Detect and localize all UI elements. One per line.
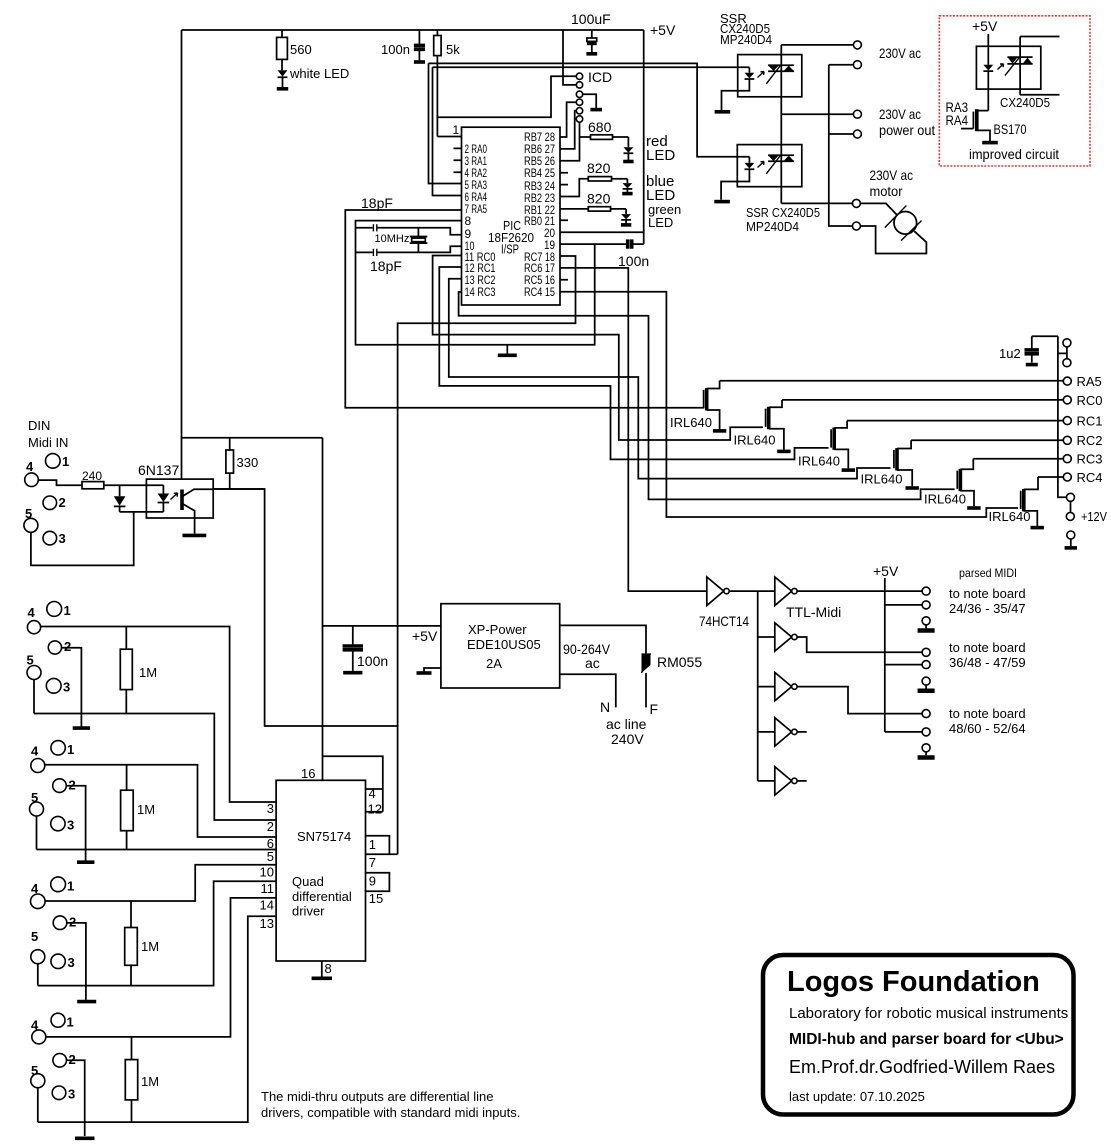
wire Q3 drain to RC1 terminal	[847, 420, 1063, 422]
svg-text:XP-Power: XP-Power	[468, 622, 527, 637]
svg-text:11: 11	[261, 881, 275, 896]
svg-text:+5V: +5V	[412, 628, 438, 644]
svg-text:3: 3	[67, 818, 74, 833]
label left pins	[260, 801, 274, 931]
wire SSR1 MT1 to terminal3	[781, 113, 853, 115]
label 90-264V ac	[563, 641, 611, 671]
svg-text:3: 3	[59, 531, 66, 546]
svg-text:48/60 - 52/64: 48/60 - 52/64	[949, 721, 1026, 736]
transistor Q3 IRL640	[798, 421, 855, 471]
LED opto SSR1	[715, 67, 764, 112]
resistor 1M (DIN3)	[121, 765, 155, 850]
svg-text:18pF: 18pF	[361, 195, 393, 211]
svg-text:14: 14	[260, 898, 274, 913]
wire RC7 pin18 to 6N137 output	[213, 256, 575, 854]
svg-text:RC3: RC3	[1077, 452, 1103, 467]
wire out F stub	[797, 780, 807, 782]
resistor 820 (green)	[560, 191, 626, 212]
red box improved circuit	[939, 16, 1090, 166]
svg-text:Laboratory for robotic musical: Laboratory for robotic musical instrumen…	[789, 1005, 1068, 1022]
svg-text:4: 4	[31, 744, 39, 759]
svg-text:330: 330	[237, 455, 259, 470]
svg-text:3: 3	[68, 1087, 75, 1102]
svg-text:IRL640: IRL640	[734, 433, 776, 448]
wire ICD pin6 to RB5	[560, 122, 580, 161]
LED white LED	[277, 66, 349, 89]
svg-text:IRL640: IRL640	[924, 492, 966, 507]
wire RA3 line to SSR2	[429, 63, 750, 156]
connector ICD	[576, 69, 612, 122]
opto box CX240D5	[976, 46, 1040, 89]
wire triac improved stubs	[1020, 37, 1059, 95]
svg-text:I/SP: I/SP	[501, 242, 519, 257]
connector DIN4	[31, 877, 77, 970]
wire RA4 vertical to PIC pin6	[433, 67, 462, 195]
svg-text:MP240D4: MP240D4	[720, 32, 772, 47]
wire +12V pair link	[1070, 501, 1072, 512]
connector board2	[918, 648, 935, 691]
wire DIN5 pin2	[67, 1060, 85, 1122]
LED green	[621, 202, 681, 230]
resistor 240	[82, 469, 120, 489]
svg-text:1: 1	[62, 454, 69, 469]
triac SSR1	[766, 45, 794, 114]
svg-text:+5V: +5V	[873, 563, 899, 579]
wire DIN4 pin2	[67, 923, 86, 986]
svg-text:2: 2	[64, 639, 71, 654]
wire RA5 pin7 to IRL640 Q1 gate	[345, 210, 704, 408]
label ac line 240V	[606, 716, 647, 747]
wire PSU L to fuse	[560, 625, 646, 653]
wire RC0 pin11 to Q2 gate	[433, 256, 763, 441]
svg-text:to note board: to note board	[949, 586, 1026, 601]
fuse RM055	[642, 653, 703, 673]
connector board3	[918, 710, 935, 758]
wire RC6 pin17 to 74HCT14	[560, 268, 707, 591]
wire DIN1 pin4	[38, 480, 82, 485]
svg-text:Logos Foundation: Logos Foundation	[787, 966, 1040, 998]
LED opto improved	[983, 34, 1003, 111]
transistor Q1 IRL640	[670, 381, 726, 431]
svg-text:parsed MIDI: parsed MIDI	[959, 566, 1017, 580]
wire MCLR to ICD pin1	[437, 76, 576, 117]
wire pin20 Vdd to +5V	[560, 231, 644, 233]
label DIN Midi IN	[28, 418, 68, 450]
svg-text:1M: 1M	[141, 1074, 159, 1089]
transistor Q2 IRL640	[734, 400, 791, 452]
svg-text:24/36 - 35/47: 24/36 - 35/47	[949, 601, 1026, 616]
svg-text:to note board: to note board	[949, 640, 1026, 655]
inverter 74HCT14 A	[699, 577, 749, 629]
capacitor 100uF	[571, 11, 611, 54]
svg-text:1u2: 1u2	[999, 346, 1021, 361]
svg-text:100n: 100n	[357, 653, 388, 669]
svg-text:560: 560	[290, 42, 312, 57]
capacitor 18pF bottom	[356, 246, 462, 274]
svg-text:1M: 1M	[139, 665, 157, 680]
svg-text:+12V: +12V	[1081, 509, 1107, 524]
svg-text:2A: 2A	[486, 656, 502, 671]
svg-text:drivers, compatible with stand: drivers, compatible with standard midi i…	[261, 1105, 520, 1120]
svg-text:N: N	[600, 699, 610, 715]
wire pin8 Vss ground line	[356, 221, 595, 345]
inverter E	[758, 718, 797, 746]
svg-text:4: 4	[369, 786, 376, 801]
svg-text:12: 12	[368, 802, 382, 817]
svg-text:MP240D4: MP240D4	[746, 219, 799, 234]
svg-text:14 RC3: 14 RC3	[465, 285, 496, 299]
wire +5V net down	[323, 438, 383, 812]
svg-text:white LED: white LED	[289, 66, 349, 81]
svg-text:680: 680	[588, 119, 612, 135]
svg-text:F: F	[650, 701, 659, 717]
svg-text:100n: 100n	[618, 253, 649, 269]
triac improved	[1005, 37, 1033, 95]
svg-text:230V ac: 230V ac	[879, 45, 921, 61]
wire out E stub	[797, 731, 807, 733]
wire DIN4 bus to SN pin11	[38, 881, 276, 985]
svg-text:motor: motor	[870, 183, 903, 199]
svg-text:230V ac: 230V ac	[879, 106, 921, 122]
wire out B to board1	[797, 590, 922, 592]
SSR2 box	[737, 145, 802, 187]
capacitor 18pF top	[356, 195, 462, 235]
svg-text:74HCT14: 74HCT14	[699, 613, 749, 629]
LED red	[623, 133, 675, 164]
wire DIN5 bus to SN pin13	[38, 916, 276, 1122]
svg-text:240V: 240V	[611, 731, 644, 747]
svg-text:SN75174: SN75174	[297, 829, 351, 844]
ground under PIC	[498, 345, 517, 356]
ground terminal bottom	[1065, 531, 1077, 548]
transistor BS170	[961, 109, 1027, 142]
svg-text:1: 1	[67, 879, 74, 894]
capacitor 1u2	[999, 336, 1058, 364]
resistor 1M (DIN4)	[125, 901, 159, 986]
LED blue	[622, 173, 675, 204]
label pin4 pin12	[368, 786, 382, 817]
transistor Q4 IRL640	[861, 440, 919, 488]
svg-text:Em.Prof.dr.Godfried-Willem Rae: Em.Prof.dr.Godfried-Willem Raes	[789, 1057, 1055, 1077]
wire out D to board3	[797, 687, 922, 714]
ground SN pin8	[312, 961, 332, 978]
svg-text:Midi IN: Midi IN	[28, 435, 68, 450]
wire 1u2 terminal link	[1058, 347, 1067, 359]
svg-text:EDE10US05: EDE10US05	[467, 637, 541, 652]
svg-text:16: 16	[301, 766, 315, 781]
svg-text:1: 1	[453, 123, 460, 137]
wire TTL chain vertical	[757, 591, 759, 781]
resistor 560	[277, 30, 312, 70]
svg-text:Quad: Quad	[292, 874, 324, 889]
svg-text:820: 820	[587, 191, 611, 207]
connector DIN3	[30, 741, 76, 833]
svg-text:IRL640: IRL640	[861, 472, 903, 487]
svg-text:DIN: DIN	[28, 418, 50, 433]
svg-text:+5V: +5V	[650, 22, 676, 38]
wire terminal bus	[829, 65, 854, 226]
diode protection	[114, 485, 126, 512]
wire DIN2 pin4 to SN pin3	[41, 627, 277, 803]
wire XP +5V output	[323, 625, 441, 627]
capacitor 100n (MCLR)	[381, 30, 425, 62]
connector DIN2	[27, 602, 72, 695]
ground DIN5	[75, 1122, 95, 1138]
ground PSU	[417, 668, 441, 673]
svg-text:improved circuit: improved circuit	[969, 146, 1059, 162]
PSU XP-Power box	[441, 604, 560, 688]
capacitor 100n (Vdd-Vss)	[560, 239, 649, 269]
svg-text:to note board: to note board	[949, 706, 1026, 721]
wire out C to board2	[797, 637, 922, 652]
wire DIN2 bus to SN pin2	[34, 680, 276, 821]
svg-text:IRL640: IRL640	[798, 454, 840, 469]
svg-text:RB4 25: RB4 25	[524, 166, 555, 180]
resistor 820 (blue)	[560, 160, 627, 197]
svg-text:LED: LED	[646, 147, 675, 164]
triac SSR2	[766, 114, 794, 203]
wire fuse to F	[645, 673, 647, 708]
wire ICD pin2 to +5V	[563, 30, 576, 85]
svg-text:RA5: RA5	[1077, 374, 1102, 389]
svg-text:820: 820	[587, 160, 611, 176]
svg-text:5: 5	[267, 849, 274, 864]
ground DIN2	[73, 714, 90, 729]
svg-text:power out: power out	[879, 122, 935, 138]
inverter D	[758, 672, 797, 700]
svg-text:10MHz: 10MHz	[375, 233, 410, 245]
wire ICD pin5 to RB6	[560, 111, 576, 149]
title block Logos Foundation	[763, 955, 1074, 1115]
svg-text:IRL640: IRL640	[989, 509, 1031, 524]
svg-text:3: 3	[68, 955, 75, 970]
svg-text:5: 5	[31, 929, 38, 944]
wire RC2 pin13 to Q4 gate	[449, 279, 891, 479]
svg-text:ICD: ICD	[588, 69, 612, 85]
svg-text:The midi-thru outputs are diff: The midi-thru outputs are differential l…	[261, 1089, 493, 1104]
svg-text:MIDI-hub and parser board for: MIDI-hub and parser board for <Ubu>	[789, 1031, 1064, 1048]
wire Q2 drain to RC0 terminal	[782, 399, 1063, 401]
svg-text:RM055: RM055	[657, 654, 702, 670]
svg-text:ac line: ac line	[606, 716, 647, 732]
svg-text:1M: 1M	[141, 939, 159, 954]
label 230V ac motor	[870, 167, 914, 199]
svg-text:RC2: RC2	[1077, 433, 1103, 448]
connector right terminals	[1063, 339, 1075, 521]
svg-text:9: 9	[369, 874, 376, 889]
connector board1	[918, 587, 935, 630]
svg-text:ac: ac	[585, 655, 600, 671]
svg-text:100uF: 100uF	[571, 11, 611, 27]
svg-text:RC4: RC4	[1077, 470, 1103, 485]
svg-text:driver: driver	[292, 904, 325, 919]
svg-text:1: 1	[369, 837, 376, 852]
svg-text:1: 1	[67, 1015, 74, 1030]
wire SN pins 1 7 inputs	[366, 836, 398, 855]
wire RC3 pin14 to Q5 gate	[459, 292, 955, 499]
ground DIN3	[77, 850, 94, 863]
connector DIN5	[31, 1013, 76, 1101]
svg-text:BS170: BS170	[994, 121, 1027, 137]
crystal 10MHz	[375, 228, 428, 253]
resistor 1M (DIN2)	[120, 627, 157, 714]
wire DIN4 pin4 to SN pin10	[45, 865, 276, 901]
svg-text:7: 7	[369, 855, 376, 870]
svg-text:100n: 100n	[381, 42, 410, 57]
svg-text:SSR CX240D5: SSR CX240D5	[746, 205, 820, 220]
svg-text:15: 15	[369, 891, 383, 906]
capacitor 100n (5V)	[343, 626, 389, 673]
wire Q5 drain to RC3 terminal	[973, 458, 1063, 460]
svg-text:2: 2	[59, 495, 66, 510]
svg-text:CX240D5: CX240D5	[1000, 95, 1050, 110]
wire Q1 drain to RA5 terminal	[720, 380, 1064, 382]
resistor 680	[580, 119, 629, 139]
label 230V ac power out	[879, 106, 935, 138]
connector 230V terminals	[852, 41, 861, 230]
svg-text:2: 2	[69, 915, 76, 930]
inverter F	[758, 767, 797, 795]
svg-text:6N137: 6N137	[138, 462, 179, 478]
svg-text:differential: differential	[292, 889, 352, 904]
wire +12V rail	[1058, 336, 1067, 497]
wire DIN1 pin5 return	[31, 512, 134, 566]
svg-text:10: 10	[260, 865, 274, 880]
transistor Q6 IRL640	[989, 477, 1044, 528]
wire Q6 drain to RC4 terminal	[1038, 476, 1063, 478]
wire inverter A out	[729, 590, 758, 592]
svg-text:last update: 07.10.2025: last update: 07.10.2025	[789, 1089, 925, 1104]
label to note board 2	[949, 640, 1026, 670]
svg-text:2: 2	[267, 819, 274, 834]
note text	[261, 1089, 520, 1120]
wire DIN3 pin2	[66, 786, 85, 850]
inverter C	[758, 623, 797, 651]
label pins 1 7 9 15	[369, 837, 383, 906]
wire RA4 line to SSR1	[433, 66, 750, 68]
svg-text:RC4 15: RC4 15	[524, 285, 555, 299]
svg-text:5k: 5k	[446, 42, 460, 57]
svg-text:LED: LED	[648, 215, 673, 230]
svg-text:13: 13	[260, 916, 274, 931]
pin stubs RB4 RB3 RB0 RC5	[560, 173, 568, 280]
opto 6N137 box	[146, 479, 213, 518]
wire RA3 vertical to PIC pin5	[429, 63, 462, 183]
transistor Q5 IRL640	[924, 459, 981, 508]
motor M	[860, 203, 926, 253]
SSR2 labels	[746, 205, 820, 234]
svg-text:8: 8	[465, 214, 472, 228]
wire RC1 pin12 to Q3 gate	[439, 267, 828, 459]
svg-text:18pF: 18pF	[370, 258, 402, 274]
wire SN pins 9 15 inputs	[366, 873, 390, 892]
svg-text:RC1: RC1	[1077, 414, 1103, 429]
node +5V	[644, 22, 676, 244]
resistor 5k	[434, 30, 462, 137]
transistor opto output	[182, 489, 213, 535]
svg-text:1M: 1M	[137, 802, 155, 817]
SSR1 box	[738, 55, 802, 97]
svg-text:TTL-Midi: TTL-Midi	[786, 604, 841, 620]
ground ICD pin3	[583, 94, 602, 109]
pin stubs RA0 RA1 RA2	[454, 148, 462, 172]
svg-text:IRL640: IRL640	[670, 415, 712, 430]
svg-text:4: 4	[28, 605, 36, 620]
LED opto SSR2	[714, 157, 764, 202]
wire PSU N	[560, 674, 616, 707]
svg-text:240: 240	[82, 469, 102, 483]
IC U1 PIC 18F2620	[453, 123, 561, 305]
ground DIN4	[77, 986, 96, 1002]
connector DIN1	[24, 454, 69, 546]
wire +5V top rail	[182, 29, 644, 31]
svg-text:RC0: RC0	[1077, 393, 1103, 408]
resistor 1M (DIN5)	[125, 1037, 159, 1122]
LED opto 6N137	[120, 485, 178, 512]
wire ICD pin4 to RB7	[560, 102, 576, 137]
label RA3 RA4	[946, 99, 969, 128]
wire SSR2 MT1 to terminal5	[781, 202, 852, 204]
wire DIN3 pin4 to SN pin6	[45, 765, 276, 837]
IC U3 SN75174	[276, 780, 365, 961]
svg-text:3: 3	[63, 680, 70, 695]
wire RC4 pin15 to Q6 gate	[560, 292, 1018, 517]
svg-text:1: 1	[67, 742, 74, 757]
wire DIN3 bus to SN pin5	[37, 816, 277, 850]
resistor 330	[226, 438, 258, 489]
wire DIN2 pin2	[62, 648, 82, 714]
svg-text:230V ac: 230V ac	[870, 167, 914, 183]
inverter B	[758, 577, 797, 606]
svg-text:3: 3	[267, 801, 274, 816]
wire 6N137 output node	[213, 488, 264, 490]
wire +5V taps	[885, 605, 922, 732]
svg-text:36/48 - 47/59: 36/48 - 47/59	[949, 655, 1026, 670]
svg-text:1: 1	[64, 603, 71, 618]
label to note board 1	[949, 586, 1026, 616]
SSR1 labels	[720, 11, 772, 47]
wire +5V to 330 rail	[182, 437, 323, 439]
wire DIN5 pin4 to SN pin14	[46, 898, 276, 1037]
wire left +5V vertical to 6N137 Vcc	[181, 30, 183, 479]
svg-text:4: 4	[26, 459, 34, 474]
svg-text:RA4: RA4	[946, 112, 969, 128]
wire Q4 drain to RC2 terminal	[911, 439, 1063, 441]
svg-text:8: 8	[325, 961, 332, 976]
wire SSR1 MT2 to terminal1	[781, 44, 853, 46]
svg-text:+5V: +5V	[972, 18, 998, 34]
node +5V TTL rail	[873, 563, 899, 732]
label to note board 3	[949, 706, 1026, 736]
